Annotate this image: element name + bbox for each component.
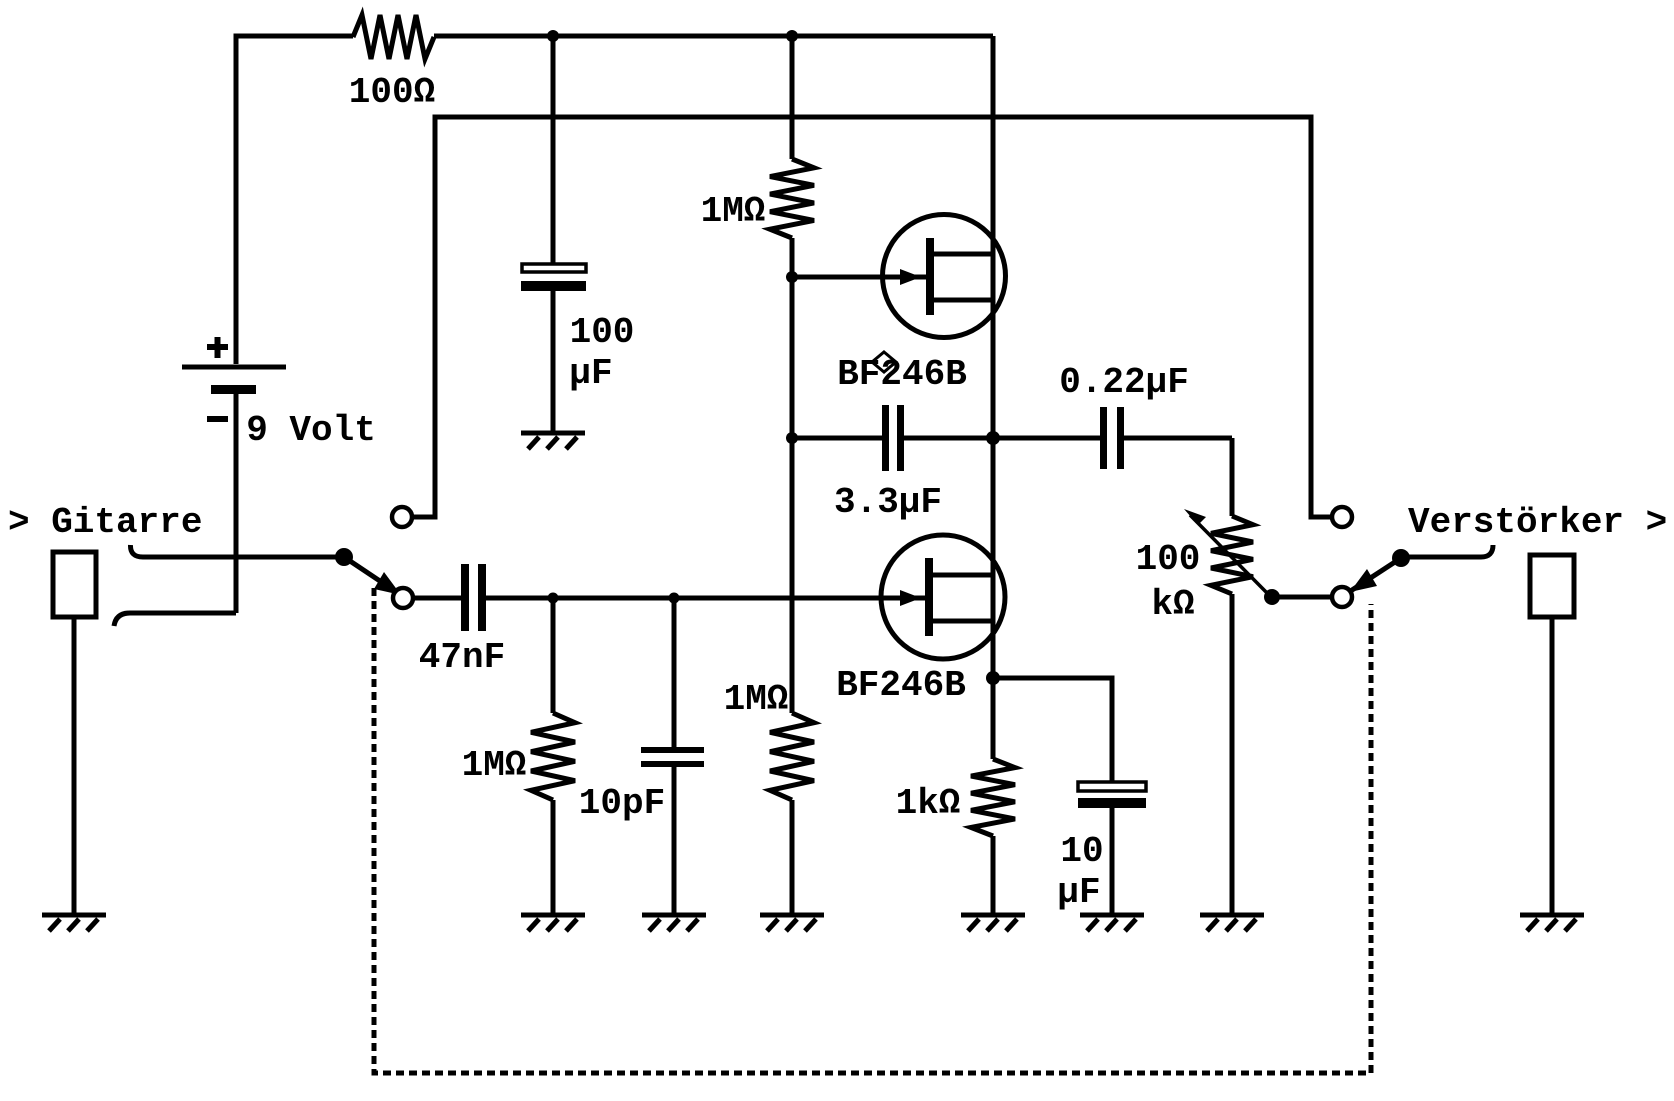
resistor R5 1MΩ middle	[770, 713, 814, 800]
wire wiper to switch	[1272, 595, 1331, 600]
node output of cascode	[986, 431, 1000, 445]
output jack plug	[1530, 555, 1574, 617]
svg-text:µF: µF	[569, 353, 612, 394]
svg-text:1kΩ: 1kΩ	[896, 783, 961, 824]
svg-text:0.22µF: 0.22µF	[1059, 362, 1189, 403]
input jack plug	[53, 552, 96, 617]
cursor artifact diamond	[872, 352, 896, 372]
switch S1b common dot	[1392, 549, 1410, 567]
switch S1a throw circle	[393, 588, 413, 608]
node C5 branch	[669, 593, 680, 604]
ground below R5	[760, 915, 824, 931]
svg-text:BF246B: BF246B	[837, 354, 967, 395]
wire top rail left segment	[236, 36, 353, 364]
dashed mechanical link	[374, 588, 1371, 1073]
node top rail / 1M column	[786, 30, 798, 42]
wire to ground	[991, 836, 996, 913]
ground below C5	[642, 915, 706, 931]
wire jack tip hook to switch	[130, 545, 344, 557]
node gate Q1	[786, 271, 798, 283]
wire pot to ground	[1230, 594, 1235, 913]
wire top rail right segment	[434, 34, 993, 39]
svg-text:µF: µF	[1057, 872, 1100, 913]
switch S1b arrowhead	[1350, 569, 1377, 592]
svg-text:47nF: 47nF	[419, 637, 505, 678]
svg-text:> Gitarre: > Gitarre	[8, 502, 202, 543]
svg-text:10pF: 10pF	[579, 783, 665, 824]
wire bypass rail	[413, 117, 1332, 517]
switch S1a common dot	[335, 548, 353, 566]
node R3 branch	[548, 593, 559, 604]
switch S1a arrowhead	[374, 572, 401, 595]
terminal circle left upper	[392, 507, 412, 527]
svg-text:Verstörker >: Verstörker >	[1408, 502, 1667, 543]
wire jack to ground	[1550, 617, 1555, 913]
wire main column V+ to output node	[991, 36, 996, 678]
terminal circle right upper	[1332, 507, 1352, 527]
transistor Q2 BF246B	[881, 535, 1005, 659]
pot wiper arrow	[1184, 509, 1270, 596]
switch S1b lever	[1349, 558, 1401, 592]
capacitor C1 100µF	[521, 36, 586, 431]
svg-text:9 Volt: 9 Volt	[246, 410, 376, 451]
switch S1b throw circle	[1332, 587, 1352, 607]
wire bias column middle	[790, 238, 795, 713]
resistor R4 1kΩ	[971, 759, 1015, 836]
capacitor C4 47nF	[461, 564, 927, 631]
wire battery minus down	[234, 394, 239, 613]
potentiometer P1 100kΩ	[1211, 516, 1253, 594]
wire source node to C6	[993, 678, 1112, 782]
capacitor C2 3.3µF	[792, 405, 1100, 471]
node source Q2	[986, 671, 1000, 685]
capacitor C3 0.22µF	[1100, 407, 1232, 469]
svg-text:kΩ: kΩ	[1151, 584, 1194, 625]
wire source node down	[991, 678, 996, 759]
transistor Q1 BF246B	[792, 215, 1006, 338]
capacitor C5 10pF	[641, 598, 704, 913]
svg-text:100: 100	[570, 312, 635, 353]
wire bias column from rail down	[790, 36, 795, 159]
battery BAT1 9 Volt	[182, 337, 286, 419]
node top rail / 100uF column	[547, 30, 559, 42]
resistor R2 1MΩ upper	[770, 159, 814, 238]
ground below C6	[1080, 915, 1144, 931]
svg-text:3.3µF: 3.3µF	[834, 482, 942, 523]
switch S1a lever	[344, 557, 398, 593]
wire output tip hook	[1401, 545, 1493, 557]
ground below input jack	[42, 915, 106, 931]
svg-text:1MΩ: 1MΩ	[724, 679, 789, 720]
wire to ground	[790, 800, 795, 913]
wire jack sleeve hook	[114, 613, 236, 626]
wire jack to ground	[72, 617, 77, 913]
node pot wiper	[1264, 589, 1280, 605]
node 3.3uF branch	[786, 432, 798, 444]
ground below R3	[521, 915, 585, 931]
ground below P1	[1200, 915, 1264, 931]
resistor R3 1MΩ left	[531, 598, 575, 913]
svg-text:100: 100	[1136, 539, 1201, 580]
ground below output jack	[1520, 915, 1584, 931]
svg-text:100Ω: 100Ω	[349, 72, 435, 113]
ground below C1	[521, 433, 585, 449]
ground below R4	[961, 915, 1025, 931]
svg-text:1MΩ: 1MΩ	[462, 745, 527, 786]
capacitor C6 10µF	[1078, 782, 1146, 913]
svg-text:1MΩ: 1MΩ	[701, 191, 766, 232]
wire 0.22uF to pot	[1230, 438, 1235, 516]
svg-text:BF246B: BF246B	[836, 665, 966, 706]
svg-text:10: 10	[1060, 831, 1103, 872]
resistor R1 100Ω	[353, 15, 434, 59]
wire input line	[413, 596, 461, 601]
